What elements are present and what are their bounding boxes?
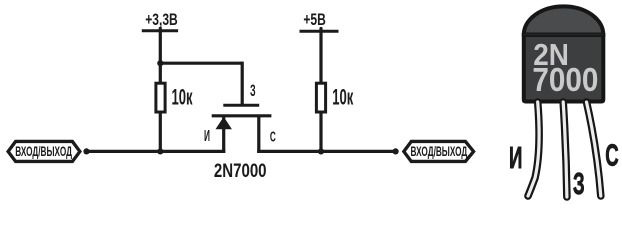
package drawing: TO-92 dome top [524, 6, 604, 34]
wire: +3.3V rail vertical [159, 28, 162, 151]
wire: gate branch horizontal [160, 62, 242, 65]
package drawing: left leg (И/source) [528, 102, 539, 196]
package drawing: TO-92 body [524, 35, 604, 102]
wire: MOSFET drain to right I/O [257, 150, 397, 153]
transistor Q1: drain lead wire [257, 117, 260, 153]
svg-text:7000: 7000 [532, 62, 598, 99]
svg-text:З: З [250, 81, 256, 100]
transistor Q1: source lead wire [222, 117, 225, 153]
svg-text:ВХОД/ВЫХОД: ВХОД/ВЫХОД [15, 145, 72, 159]
svg-text:С: С [270, 128, 276, 145]
svg-text:З: З [573, 167, 585, 201]
svg-text:И: И [204, 126, 210, 145]
svg-text:2N7000: 2N7000 [214, 159, 267, 181]
node: right I/O junction dot [393, 148, 399, 154]
package drawing: right leg (С/drain) [587, 102, 601, 196]
connector: ВХОД/ВЫХОД left hexagon [8, 141, 80, 161]
resistor R2 10k [316, 83, 325, 112]
transistor Q1: channel bar [212, 114, 272, 117]
wire: left I/O to MOSFET source [84, 150, 225, 153]
connector: ВХОД/ВЫХОД right hexagon [404, 141, 474, 161]
node: left I/O junction dot [83, 148, 89, 154]
power rail +5V bar [300, 30, 339, 33]
wire: +5V rail vertical [319, 29, 322, 152]
transistor Q1 2N7000 symbol: gate electrode bar [223, 104, 259, 107]
svg-text:И: И [509, 141, 522, 175]
wire: gate branch vertical down to gate [241, 62, 244, 105]
svg-text:10к: 10к [171, 84, 193, 110]
node: gate branch junction [157, 60, 163, 66]
svg-text:10к: 10к [332, 84, 354, 110]
node: right rail joins I/O wire [318, 148, 324, 154]
transistor Q1: source arrow [216, 117, 232, 129]
node: left rail joins I/O wire [157, 148, 163, 154]
power rail +3.3V bar [142, 29, 178, 32]
resistor R1 10k [156, 83, 165, 112]
svg-text:ВХОД/ВЫХОД: ВХОД/ВЫХОД [411, 145, 468, 159]
svg-text:+3,3В: +3,3В [145, 11, 178, 29]
svg-text:С: С [605, 139, 618, 173]
svg-text:+5В: +5В [303, 11, 325, 29]
package drawing: seam line [524, 34, 604, 36]
package drawing: middle leg (З/gate) [563, 102, 567, 197]
